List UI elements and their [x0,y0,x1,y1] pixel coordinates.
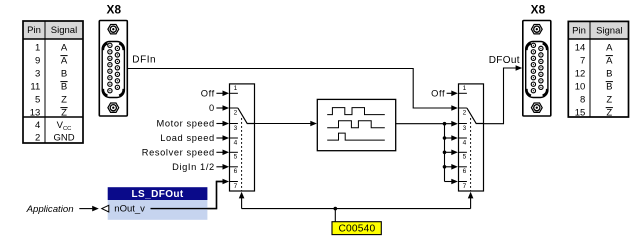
svg-text:B: B [61,82,67,93]
svg-text:C00540: C00540 [338,224,375,235]
svg-text:Off: Off [201,88,215,98]
svg-text:Z: Z [606,95,612,106]
svg-text:3: 3 [234,125,238,132]
svg-text:LS_DFOut: LS_DFOut [132,189,184,200]
svg-text:DFOut: DFOut [489,55,520,66]
svg-text:GND: GND [53,133,74,144]
svg-text:X8: X8 [531,2,546,16]
svg-text:X8: X8 [106,2,121,16]
svg-text:2: 2 [234,109,238,116]
svg-text:5: 5 [463,154,467,161]
svg-text:A: A [61,56,68,67]
svg-text:B: B [61,69,67,80]
svg-text:4: 4 [463,139,467,146]
svg-text:1: 1 [35,43,40,54]
svg-text:2: 2 [35,133,40,144]
svg-text:12: 12 [575,69,586,80]
svg-text:6: 6 [234,168,238,175]
svg-text:7: 7 [463,183,467,190]
svg-text:nOut_v: nOut_v [114,204,145,215]
svg-text:11: 11 [30,82,40,93]
svg-text:4: 4 [35,120,40,131]
svg-text:Signal: Signal [596,26,622,37]
svg-text:A: A [606,56,613,67]
svg-text:1: 1 [463,85,467,92]
svg-text:7: 7 [580,56,585,67]
svg-text:B: B [606,82,612,93]
svg-text:4: 4 [234,139,238,146]
svg-text:3: 3 [463,125,467,132]
svg-text:Resolver speed: Resolver speed [142,147,215,157]
svg-text:Z: Z [61,95,67,106]
svg-text:Signal: Signal [51,25,77,36]
svg-text:5: 5 [35,95,40,106]
svg-text:0: 0 [209,103,215,113]
svg-text:A: A [61,43,68,54]
svg-text:14: 14 [575,43,586,54]
svg-text:A: A [606,43,613,54]
svg-text:Load speed: Load speed [160,133,215,143]
svg-text:Pin: Pin [572,26,586,37]
svg-text:10: 10 [575,82,586,93]
svg-text:1: 1 [234,85,238,92]
svg-text:9: 9 [35,56,40,67]
svg-text:5: 5 [234,154,238,161]
svg-text:8: 8 [580,95,585,106]
svg-text:3: 3 [35,69,40,80]
svg-text:B: B [606,69,612,80]
svg-text:Pin: Pin [27,25,41,36]
svg-text:7: 7 [234,183,238,190]
svg-text:Application: Application [26,204,74,215]
svg-text:DigIn 1/2: DigIn 1/2 [172,162,215,172]
svg-text:6: 6 [463,168,467,175]
svg-text:2: 2 [463,109,467,116]
svg-text:Off: Off [431,88,445,98]
svg-text:DFIn: DFIn [132,55,156,66]
svg-text:Motor speed: Motor speed [157,119,215,129]
